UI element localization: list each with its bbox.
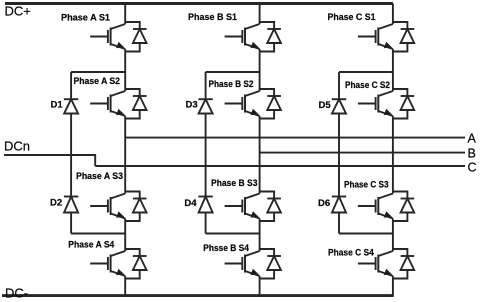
svg-text:D5: D5	[319, 100, 332, 111]
svg-text:Phase B S3: Phase B S3	[211, 178, 258, 188]
wire clamp bottom junction (phase C)	[339, 233, 393, 235]
clamp diode D2	[64, 196, 78, 198]
wire output line B	[260, 152, 465, 154]
phase B leg wire segments	[259, 4, 261, 296]
svg-text:Phase A S4: Phase A S4	[68, 239, 114, 249]
svg-text:Phase C S3: Phase C S3	[344, 180, 389, 190]
wire DCn neutral rail with step	[4, 155, 95, 166]
antiparallel diode of Phase B S4	[260, 249, 275, 279]
svg-text:DC+: DC+	[5, 4, 31, 19]
clamp diode D4	[198, 196, 212, 198]
clamp diode D1	[64, 98, 78, 100]
IGBT Phase B S1	[225, 36, 243, 38]
svg-text:D6: D6	[318, 198, 330, 209]
antiparallel diode of Phase A S3	[125, 192, 140, 222]
IGBT Phase A S3	[90, 205, 108, 207]
svg-text:Phase A S1: Phase A S1	[61, 13, 110, 23]
antiparallel diode of Phase A S4	[125, 249, 140, 279]
clamp diode D3	[198, 98, 212, 100]
IGBT Phase B S4	[225, 263, 243, 265]
svg-text:D3: D3	[186, 100, 198, 111]
svg-text:Phase A S3: Phase A S3	[76, 171, 123, 181]
svg-text:DCn: DCn	[4, 139, 30, 154]
antiparallel diode of Phase B S3	[260, 192, 275, 222]
svg-text:D4: D4	[184, 198, 197, 209]
wire output line A	[125, 137, 465, 139]
clamp diode D5	[332, 98, 346, 100]
svg-text:C: C	[468, 161, 477, 175]
wire clamp bottom junction (phase B)	[206, 233, 260, 235]
wire clamp top junction (phase B)	[206, 71, 260, 73]
svg-text:D2: D2	[50, 197, 62, 208]
antiparallel diode of Phase B S2	[260, 89, 275, 119]
IGBT Phase A S1	[90, 36, 108, 38]
wire clamp diode column (phase A)	[70, 72, 72, 234]
phase C leg wire segments	[392, 4, 394, 296]
svg-text:Phase C S1: Phase C S1	[328, 12, 376, 22]
clamp diode D6	[332, 196, 346, 198]
svg-text:DC-: DC-	[5, 285, 28, 300]
wire clamp bottom junction (phase A)	[71, 233, 125, 235]
wire neutral / output C bus	[95, 165, 465, 167]
svg-text:Phase C S4: Phase C S4	[328, 248, 374, 258]
svg-text:B: B	[468, 147, 476, 161]
power rail DC+	[5, 2, 393, 5]
svg-text:D1: D1	[51, 99, 64, 110]
IGBT Phase B S2	[225, 103, 243, 105]
wire clamp top junction (phase C)	[339, 71, 393, 73]
IGBT Phase A S2	[90, 103, 108, 105]
svg-text:Phase B S1: Phase B S1	[188, 12, 237, 22]
antiparallel diode of Phase A S1	[125, 22, 140, 52]
antiparallel diode of Phase A S2	[125, 89, 140, 119]
svg-text:Phase B S2: Phase B S2	[209, 79, 254, 89]
wire clamp diode column (phase C)	[338, 72, 340, 234]
phase A leg wire segments	[124, 4, 126, 296]
antiparallel diode of Phase C S2	[393, 89, 408, 119]
IGBT Phase B S3	[225, 205, 243, 207]
IGBT Phase C S1	[358, 36, 376, 38]
wire clamp top junction (phase A)	[71, 71, 125, 73]
IGBT Phase A S4	[90, 263, 108, 265]
svg-text:A: A	[468, 132, 477, 146]
svg-text:Phase C S2: Phase C S2	[345, 80, 390, 90]
svg-text:Phase A S2: Phase A S2	[74, 76, 121, 86]
antiparallel diode of Phase B S1	[260, 22, 275, 52]
antiparallel diode of Phase C S3	[393, 192, 408, 222]
wire clamp diode column (phase B)	[205, 72, 207, 234]
svg-text:Phsse B S4: Phsse B S4	[203, 243, 249, 253]
IGBT Phase C S4	[358, 263, 376, 265]
IGBT Phase C S2	[358, 103, 376, 105]
antiparallel diode of Phase C S4	[393, 249, 408, 279]
IGBT Phase C S3	[358, 205, 376, 207]
antiparallel diode of Phase C S1	[393, 22, 408, 52]
power rail DC-	[2, 294, 394, 297]
